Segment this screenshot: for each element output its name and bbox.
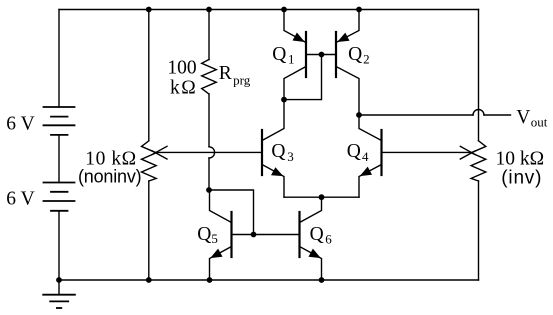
node diff emitters / Q6 collector: [319, 194, 325, 200]
wire left rail upper segment: [58, 10, 60, 108]
svg-text:V: V: [516, 107, 530, 128]
battery B2 6V: [44, 183, 75, 211]
svg-text:100: 100: [167, 57, 196, 78]
svg-text:Q: Q: [197, 224, 211, 245]
node top rail / Q2 emitter: [356, 7, 362, 13]
svg-text:4: 4: [362, 149, 369, 164]
wire diff pair emitter rail: [284, 196, 359, 198]
potentiometer noninv wiper arrow: [152, 146, 167, 154]
label Q3: [271, 141, 293, 164]
wire Q5 Q6 base rail: [232, 234, 300, 236]
node top rail / Q1 emitter: [281, 7, 287, 13]
label B2 6 V: [6, 189, 34, 210]
transistor Q5 (NPN): [210, 190, 232, 280]
potentiometer inv wiper arrow: [460, 146, 475, 154]
svg-text:3: 3: [287, 149, 294, 164]
label B1 6 V: [6, 114, 34, 135]
svg-text:(noninv): (noninv): [78, 167, 141, 187]
label Vout: [516, 107, 547, 129]
svg-text:prg: prg: [233, 72, 251, 87]
transistor Q4 (NPN): [359, 115, 382, 197]
svg-text:Q: Q: [272, 44, 286, 65]
label (inv): [501, 167, 542, 188]
node bottom rail / ground: [56, 277, 62, 283]
label Rprg: [219, 63, 251, 87]
svg-text:Q: Q: [310, 224, 324, 245]
wire Q1 collector to base junction feedback: [284, 55, 322, 100]
wire Vout line with hop: [359, 114, 473, 116]
svg-text:Q: Q: [347, 141, 361, 162]
transistor Q2 (PNP): [322, 10, 360, 116]
transistor Q3 (NPN): [262, 100, 284, 198]
svg-text:Q: Q: [348, 44, 362, 65]
node bottom rail / Q6 emitter: [319, 277, 325, 283]
label 10 kOhm noninv: [85, 148, 136, 169]
svg-text:R: R: [219, 63, 232, 84]
svg-text:1: 1: [288, 51, 295, 66]
label 100 kOhm: [167, 57, 197, 98]
wire right rail upper: [478, 10, 480, 141]
transistor Q6 (NPN): [300, 197, 322, 280]
wire Rprg node to mirror base: [209, 190, 254, 235]
node Q1 Q3 collectors: [281, 97, 287, 103]
label Q4: [347, 141, 369, 164]
wire top rail: [59, 9, 479, 11]
wire Rprg branch upper: [208, 10, 210, 60]
wire noninv pot branch lower: [148, 181, 150, 280]
svg-text:6: 6: [325, 231, 332, 246]
svg-text:6 V: 6 V: [6, 114, 34, 135]
ground: [43, 280, 75, 308]
node Q1 Q2 bases: [319, 52, 325, 58]
svg-text:6 V: 6 V: [6, 189, 34, 210]
node Rprg / Q5 collector: [206, 187, 212, 193]
label 10 kOhm inv: [496, 148, 545, 169]
node bottom rail / noninv pot: [146, 277, 152, 283]
wire Rprg branch lower with hop over wiper line: [208, 94, 210, 147]
svg-text:2: 2: [363, 51, 370, 66]
node Q5 Q6 base: [251, 232, 257, 238]
svg-text:10 kΩ: 10 kΩ: [496, 148, 545, 169]
svg-text:Q: Q: [271, 141, 285, 162]
svg-text:out: out: [531, 114, 548, 129]
potentiometer inv zigzag: [471, 141, 486, 181]
wire Q4 base to inv pot wiper: [382, 151, 471, 153]
battery B1 6V: [44, 107, 75, 135]
label Q6: [310, 224, 333, 246]
wire noninv pot branch upper: [148, 10, 150, 141]
svg-text:5: 5: [211, 231, 218, 246]
label Q5: [197, 224, 218, 246]
wire right rail lower: [478, 181, 480, 280]
potentiometer noninv zigzag: [142, 141, 157, 181]
label Q1: [272, 44, 294, 66]
transistor Q1 (PNP): [284, 10, 322, 100]
node top rail / Rprg: [206, 7, 212, 13]
wire bottom rail: [59, 279, 479, 281]
wire between batteries: [58, 135, 60, 183]
wire left rail lower segment: [58, 211, 60, 280]
label (noninv): [78, 167, 141, 187]
svg-text:kΩ: kΩ: [170, 77, 197, 98]
node Q2 Q4 collectors / Vout: [356, 112, 362, 118]
node top rail / noninv pot: [146, 7, 152, 13]
svg-text:(inv): (inv): [501, 167, 542, 188]
wire noninv wiper to Q3 base: [156, 151, 262, 153]
node bottom rail / Q5 emitter: [207, 277, 213, 283]
label Q2: [348, 44, 370, 66]
resistor Rprg 100k zigzag: [202, 60, 217, 95]
